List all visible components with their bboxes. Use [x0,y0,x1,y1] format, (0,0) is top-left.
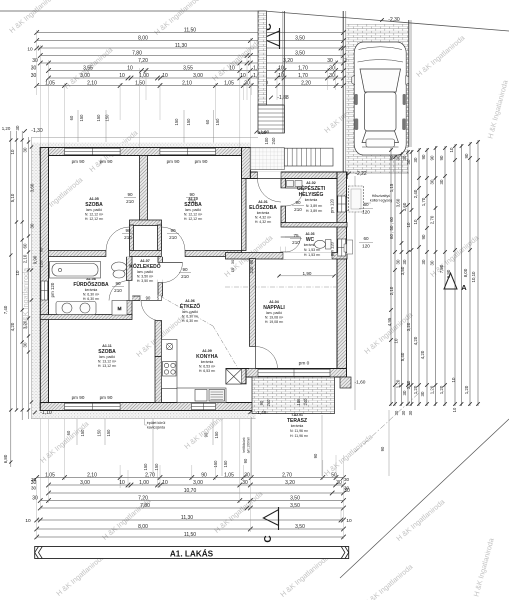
svg-text:2,70: 2,70 [282,472,292,478]
svg-text:30: 30 [413,157,418,162]
svg-text:210: 210 [181,274,189,279]
svg-text:30: 30 [394,410,399,415]
driveway bottom edge [347,172,409,174]
svg-text:11,30: 11,30 [181,515,193,521]
svg-text:3,20: 3,20 [23,320,28,329]
svg-text:A1.09: A1.09 [202,349,212,353]
window sill east upper [347,198,353,211]
svg-text:A: A [461,283,467,292]
svg-text:5,40: 5,40 [400,352,405,361]
svg-text:30: 30 [32,58,38,64]
partition kitchen west lower [155,357,162,403]
svg-text:3,60: 3,60 [402,202,407,211]
svg-text:150: 150 [106,429,111,437]
svg-text:10: 10 [162,480,168,486]
door opening entry [258,172,282,179]
svg-text:30: 30 [329,73,335,79]
svg-text:30: 30 [344,477,350,482]
partition gepeszeti west lower [281,206,286,223]
svg-text:90: 90 [170,228,176,233]
svg-text:90: 90 [380,446,385,451]
dimension row top 11,30 [34,43,345,51]
svg-text:150: 150 [154,463,159,471]
svg-text:210: 210 [114,288,122,293]
svg-text:30: 30 [230,259,235,264]
svg-text:90: 90 [389,155,394,160]
svg-text:30: 30 [401,410,406,415]
north fence brick strip [258,11,267,105]
svg-text:1,05: 1,05 [224,472,234,478]
svg-text:30: 30 [30,223,35,228]
svg-text:30: 30 [329,65,335,71]
partition stub right [158,225,162,251]
svg-text:1,70: 1,70 [298,73,308,79]
car top view [352,42,409,155]
svg-text:10: 10 [451,377,456,382]
svg-text:10: 10 [278,73,284,79]
room label A1.08 FÜRDŐSZOBA [73,277,109,301]
svg-text:1,05: 1,05 [224,80,234,86]
svg-text:90: 90 [421,234,426,239]
svg-text:H: 6,30 m²: H: 6,30 m² [182,319,199,323]
svg-text:H: 6,30 m²: H: 6,30 m² [83,297,100,301]
svg-text:30: 30 [344,488,350,494]
svg-text:A1.07: A1.07 [140,259,150,263]
svg-text:150: 150 [174,118,179,126]
svg-text:30: 30 [408,410,413,415]
svg-text:60: 60 [23,243,28,248]
svg-text:90: 90 [125,228,131,233]
svg-text:30: 30 [402,390,407,395]
svg-text:11,30: 11,30 [175,43,187,49]
wall south main [40,403,255,411]
svg-text:30: 30 [406,159,411,164]
svg-text:210: 210 [124,235,132,240]
wall south of NAPPALI [246,369,347,378]
partition corridor/etkezo divider low [158,280,163,296]
axis extension lines top [69,110,220,147]
door to etkezo [163,263,183,283]
svg-text:3,00: 3,00 [193,480,203,486]
door to A1.11 szoba [141,301,162,322]
svg-text:épület körül: épület körül [147,421,166,425]
svg-text:3,20: 3,20 [406,322,411,331]
svg-text:H: 3,50 m²: H: 3,50 m² [137,279,154,283]
axis labels under south wall [66,419,219,445]
svg-text:N: 19,08 m²: N: 19,08 m² [265,316,284,320]
svg-text:Hőszivattyú: Hőszivattyú [372,194,391,198]
svg-text:3,55: 3,55 [183,65,193,71]
svg-text:kerámia: kerámia [201,360,214,364]
entry stairs north [258,105,284,133]
svg-text:30: 30 [32,495,38,501]
svg-text:30: 30 [430,260,435,265]
svg-text:30: 30 [15,125,20,130]
door opening gepeszeti [281,188,286,206]
svg-text:10: 10 [413,219,418,224]
entry porch tiles [250,148,284,170]
extension lines bottom block [37,419,344,539]
dimension row top 8,00 / 3,50 [34,35,345,43]
svg-text:90: 90 [204,432,209,437]
partition bathroom east [127,257,133,281]
svg-text:150: 150 [215,118,220,126]
svg-text:30: 30 [244,472,250,478]
door opening A1.05 [106,250,130,257]
svg-text:kerámia: kerámia [257,211,270,215]
svg-text:90: 90 [201,472,207,478]
room label A1.07 KÖZLEKEDŐ [129,259,161,283]
svg-text:N: 6,30 m²: N: 6,30 m² [83,293,100,297]
svg-text:C: C [263,535,274,542]
window A1.10 north [160,148,216,154]
dimension row top 1,05 row [34,80,345,88]
svg-text:30: 30 [430,179,435,184]
svg-text:30: 30 [327,58,333,64]
svg-text:10: 10 [452,407,457,412]
svg-text:-1,88: -1,88 [277,95,289,101]
svg-text:5,10: 5,10 [10,193,15,202]
svg-text:10: 10 [127,65,133,71]
svg-text:2,10: 2,10 [87,472,97,478]
door opening nappali north 1,90 [283,252,332,259]
svg-text:kerámia: kerámia [85,288,98,292]
window nappali terrace door [258,369,330,376]
svg-text:H: 12,12 m²: H: 12,12 m² [85,217,104,221]
svg-text:A1.04: A1.04 [269,300,279,304]
lot boundary diagonal bottom-right [340,419,509,578]
svg-text:kerámia: kerámia [291,424,304,428]
svg-text:3,00: 3,00 [193,73,203,79]
svg-text:8,00: 8,00 [138,524,148,530]
svg-text:210: 210 [294,207,302,212]
svg-text:-1,30: -1,30 [31,128,43,134]
door to bathroom [109,281,129,301]
svg-text:1,05: 1,05 [45,472,55,478]
svg-text:90: 90 [421,154,426,159]
window east upper 60/120 [338,196,346,212]
terrace corner wall stub [340,377,351,388]
svg-text:10: 10 [278,65,284,71]
svg-text:1,00: 1,00 [139,480,149,486]
svg-text:3,60: 3,60 [396,198,401,207]
svg-text:N: 3,89 m²: N: 3,89 m² [306,204,323,208]
svg-text:150: 150 [223,460,228,468]
svg-text:60: 60 [363,236,369,241]
svg-text:9,90: 9,90 [33,255,38,264]
dimension row bot 3,00 row [31,480,346,488]
svg-text:30: 30 [421,259,426,264]
svg-text:H: 4,32 m²: H: 4,32 m² [255,220,272,224]
gravel walkway band north [32,143,251,148]
svg-text:pm 90: pm 90 [100,159,113,164]
svg-text:H: 11,96 m²: H: 11,96 m² [290,434,309,438]
svg-text:10: 10 [25,518,31,524]
svg-text:1,70: 1,70 [298,65,308,71]
svg-text:10: 10 [449,147,454,152]
svg-text:10: 10 [10,149,15,154]
svg-text:4,20: 4,20 [420,350,425,359]
window bathroom west [41,281,48,300]
svg-text:120: 120 [39,260,44,267]
svg-text:A1.06: A1.06 [185,299,195,303]
svg-text:60: 60 [39,247,44,252]
dimension row top 7,20 3,20 [32,58,350,66]
svg-text:3,50: 3,50 [295,50,305,56]
gravel walkway band south [32,411,256,419]
partition gepeszeti/wc divider [281,223,347,228]
svg-text:7,80: 7,80 [140,503,150,509]
svg-text:kültéri egység: kültéri egység [370,199,392,203]
east boundary extension line [354,176,356,410]
heat pump outdoor unit [349,186,364,212]
svg-text:150: 150 [80,429,85,437]
dimension row top 7,80 / 3,50 [38,50,346,58]
window A1.05 north [65,148,121,154]
svg-text:7,20: 7,20 [138,58,148,64]
svg-text:100: 100 [264,137,269,145]
svg-text:60: 60 [69,115,74,120]
svg-text:3,50: 3,50 [290,495,300,501]
svg-text:30: 30 [31,65,37,71]
dash-dot line through nappali [225,286,337,288]
extension lines top block [37,30,344,147]
svg-text:150: 150 [143,463,148,471]
dimension row bot 8,00 3,50 [34,524,345,532]
svg-text:210: 210 [169,235,177,240]
dimension row top 3,00 row [46,73,346,81]
svg-text:pm 0: pm 0 [299,361,310,367]
svg-text:A1.02: A1.02 [306,181,316,185]
svg-text:10,70: 10,70 [184,488,197,494]
room label A1.04 NAPPALI [263,300,285,324]
driveway right fence double line [408,20,410,147]
svg-text:lam. padló: lam. padló [86,208,102,212]
shaft X box [226,369,242,384]
svg-text:30: 30 [396,259,401,264]
svg-text:210: 210 [292,240,300,245]
svg-text:150: 150 [96,114,101,122]
partition nappali west [250,259,256,347]
svg-text:1,70: 1,70 [421,197,426,206]
svg-text:2,40: 2,40 [413,189,418,198]
svg-text:2,70: 2,70 [145,472,155,478]
svg-text:N: 4,32 m²: N: 4,32 m² [255,216,272,220]
svg-text:1,90: 1,90 [258,130,267,135]
svg-text:90: 90 [249,259,254,264]
door to wc [286,237,301,252]
dimension row bot 11,50 [34,532,345,540]
svg-text:pm 90: pm 90 [72,159,85,164]
svg-text:N: 6,53 m²: N: 6,53 m² [199,365,216,369]
outdoor stair east of porch [284,148,333,166]
svg-text:30: 30 [31,486,37,491]
svg-text:6,80: 6,80 [3,454,8,463]
svg-text:7,80: 7,80 [439,264,444,273]
svg-text:150: 150 [186,118,191,126]
svg-text:HELYISÉG: HELYISÉG [299,190,324,198]
svg-text:3,50: 3,50 [290,503,300,509]
svg-text:90: 90 [182,267,188,272]
svg-text:30: 30 [396,155,401,160]
svg-text:á/n:100mm: á/n:100mm [247,437,251,454]
svg-text:2,10: 2,10 [389,286,394,295]
svg-text:1,15: 1,15 [389,183,394,192]
svg-text:2,70: 2,70 [430,215,435,224]
svg-text:A1.01: A1.01 [258,200,268,204]
svg-text:4,20: 4,20 [10,322,15,331]
door to gepeszeti [286,188,304,206]
svg-text:pm 90: pm 90 [195,159,208,164]
svg-text:N: 12,12 m²: N: 12,12 m² [184,213,203,217]
svg-text:2,20: 2,20 [301,80,311,86]
svg-text:3,50: 3,50 [295,35,305,41]
svg-text:10: 10 [119,73,125,79]
svg-text:150: 150 [97,429,102,437]
svg-text:30: 30 [420,391,425,396]
dashed roof line over kitchen [213,326,238,368]
left dimension block [2,125,38,467]
svg-text:pm 120: pm 120 [50,282,55,297]
svg-text:H: 12,12 m²: H: 12,12 m² [184,217,203,221]
svg-text:1,05: 1,05 [45,80,55,86]
room label A1.10 SZOBA [184,197,203,221]
svg-text:75: 75 [293,233,299,238]
svg-text:3,50: 3,50 [295,524,305,530]
svg-text:60 , 50 , 60: 60 , 50 , 60 [389,216,394,239]
svg-text:H: 1,53 m²: H: 1,53 m² [304,253,321,257]
svg-text:90: 90 [295,200,301,205]
svg-text:210: 210 [126,199,134,204]
partition corridor south stub [132,296,141,301]
svg-text:1,00: 1,00 [139,73,149,79]
gepeszeti equipment [287,181,303,187]
svg-text:1,20: 1,20 [2,126,11,131]
svg-text:2,10: 2,10 [87,80,97,86]
svg-text:3,50: 3,50 [400,266,405,275]
gravel walkway edge lines [31,137,33,419]
dimension row bot 7,20 3,50 [32,495,346,503]
svg-text:H: 3,89 m²: H: 3,89 m² [306,209,323,213]
svg-text:90: 90 [313,453,318,458]
washbasin pedestal [112,262,127,278]
svg-text:kavicsjárda: kavicsjárda [147,426,165,430]
svg-text:FÜRDŐSZOBA: FÜRDŐSZOBA [73,281,109,288]
room label A1.05 SZOBA [85,197,104,221]
svg-text:90: 90 [146,296,151,301]
svg-text:M: M [118,306,122,311]
dimension row top 3,55 row [46,65,346,73]
svg-text:150: 150 [214,431,219,439]
svg-text:tetőkibúvó: tetőkibúvó [242,437,246,452]
twin washbasins [56,302,96,315]
room label TERASZ [287,413,309,438]
terrace brick paving [252,377,335,414]
wall north entry (ELOSZOBA/GEPESZETI) [250,172,347,179]
svg-text:lam. padló: lam. padló [137,270,153,274]
svg-text:A1.11: A1.11 [102,344,111,348]
partition bathroom south [40,315,132,320]
svg-text:30: 30 [439,179,444,184]
window kitchen south [192,403,216,409]
door opening szoba A1.11 [140,296,162,301]
partition room A1.11 east / kitchen west [155,321,162,357]
svg-text:lam. padló: lam. padló [185,208,201,212]
svg-text:H: 6,53 m²: H: 6,53 m² [199,369,216,373]
window sill east lower [347,240,353,254]
room label A1.01 ELŐSZOBA [249,200,277,224]
partition eloszoba west [242,179,247,251]
svg-text:3,00: 3,00 [80,73,90,79]
svg-text:3,55: 3,55 [83,65,93,71]
svg-text:1,90: 1,90 [303,271,312,276]
svg-text:4,20: 4,20 [413,336,418,345]
room label A1.09 KONYHA [196,349,218,373]
svg-text:90: 90 [430,155,435,160]
dimension row bot 10,70 [46,488,350,496]
dimension row bot 1,05 row [34,472,345,480]
svg-text:8,00: 8,00 [463,268,468,277]
wall east of room A1.10 / step [242,148,251,179]
svg-text:10: 10 [27,47,33,53]
svg-text:90: 90 [115,281,121,286]
svg-text:30: 30 [31,477,37,482]
svg-text:-1,49: -1,49 [256,410,267,416]
svg-text:N: 1,53 m²: N: 1,53 m² [304,248,321,252]
dimension row bot 7,80 3,50 [38,503,346,511]
kitchen counter west leg [162,340,178,389]
wall east [337,172,347,377]
svg-text:30: 30 [23,147,28,152]
svg-text:30: 30 [242,480,248,486]
right dimension block [387,140,480,415]
svg-text:1,20: 1,20 [464,385,469,394]
svg-text:H: 19,08 m²: H: 19,08 m² [265,320,284,324]
svg-text:10: 10 [230,267,235,272]
partition corridor/etkezo divider [158,257,163,263]
partition below rooms center [130,251,162,257]
svg-text:7,80: 7,80 [132,50,142,56]
svg-text:11,50: 11,50 [184,27,196,33]
svg-text:pm 90: pm 90 [100,395,113,400]
svg-text:1,20: 1,20 [439,385,444,394]
window east lower 60/120 [338,239,346,256]
wc toilet [315,240,332,250]
svg-text:3,60: 3,60 [30,183,35,192]
door opening A1.10 [162,250,186,257]
svg-text:1,20: 1,20 [396,379,401,388]
door opening wc [281,237,286,252]
svg-text:KÖZLEKEDŐ: KÖZLEKEDŐ [129,263,161,270]
svg-text:7,20: 7,20 [138,495,148,501]
level marker triangle A [444,273,467,292]
partition between A1.05 and A1.10 [140,156,148,221]
door to A1.05 [106,227,130,251]
svg-text:lam. padló: lam. padló [182,310,198,314]
partition below rooms west part [49,251,107,257]
gravel walkway band west [32,143,41,420]
svg-text:lam. padló: lam. padló [266,311,282,315]
room label A1.03 WC [304,232,321,257]
svg-text:1,50: 1,50 [135,80,145,86]
svg-text:3,20: 3,20 [285,480,295,486]
svg-text:A1.10: A1.10 [188,197,198,201]
svg-text:10: 10 [229,65,235,71]
svg-text:2,10: 2,10 [182,80,192,86]
svg-text:ELŐSZOBA: ELŐSZOBA [249,204,277,211]
svg-text:90: 90 [243,458,248,463]
partition corridor stub T [130,220,162,226]
